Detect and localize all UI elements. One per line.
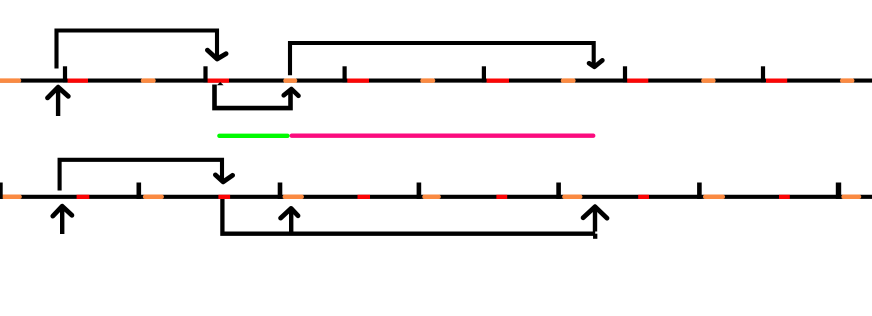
top orange segment 2 xyxy=(143,78,154,83)
top tick 5 xyxy=(623,66,627,82)
bottom bracket B with up arrow (top row) xyxy=(215,85,299,109)
top orange segment 3 xyxy=(286,78,296,83)
top orange segment 7 xyxy=(842,78,852,83)
bottom orange segment 3 xyxy=(285,195,302,200)
up arrow D1 below bottom line xyxy=(53,206,72,234)
bottom tick 2 xyxy=(278,183,283,199)
up arrow E2 at right end of bracket E xyxy=(583,207,607,232)
up arrow A1 below top line xyxy=(48,87,69,116)
top red segment 6 xyxy=(766,79,787,83)
top sequence line xyxy=(0,79,872,83)
bottom orange segment 1 xyxy=(4,195,20,200)
top red segment 1 xyxy=(68,79,88,83)
bottom red segment 4 xyxy=(496,195,507,199)
small artifact mark below top line xyxy=(217,82,224,85)
bottom tick 3 xyxy=(417,183,422,199)
top tick 3 xyxy=(343,66,347,82)
top bracket C with down arrow xyxy=(290,43,602,75)
bottom bracket D with down arrow xyxy=(60,160,233,191)
bottom orange segment 7 xyxy=(844,195,859,200)
top orange segment 6 xyxy=(703,78,713,83)
bottom tick 4 xyxy=(556,183,561,199)
top orange segment 5 xyxy=(563,78,573,83)
top red segment 3 xyxy=(347,79,369,83)
bottom bracket E xyxy=(222,199,595,239)
top tick 2 xyxy=(203,66,207,82)
bottom orange segment 5 xyxy=(564,195,580,200)
top red segment 2 xyxy=(208,79,230,83)
top tick 6 xyxy=(761,66,765,82)
top red segment 4 xyxy=(487,79,509,83)
bottom orange segment 2 xyxy=(145,195,162,200)
top red segment 5 xyxy=(627,79,648,83)
bottom tick 6 xyxy=(836,183,841,199)
up arrow E1 on bracket E xyxy=(281,208,298,231)
top bracket A with down arrow xyxy=(57,31,227,69)
bottom red segment 3 xyxy=(358,195,371,199)
bottom red segment 1 xyxy=(77,195,90,199)
bottom orange segment 4 xyxy=(425,195,439,200)
top orange segment 4 xyxy=(423,78,434,83)
bottom red segment 2 xyxy=(218,195,230,199)
top orange segment 1 xyxy=(0,78,19,83)
bottom tick 1 xyxy=(137,183,142,199)
bottom orange segment 6 xyxy=(705,195,723,200)
green sequence fragment xyxy=(219,134,287,138)
magenta sequence fragment xyxy=(292,133,593,137)
bottom red segment 6 xyxy=(779,195,790,199)
bottom tick 0 (left edge) xyxy=(0,183,3,199)
top tick 1 xyxy=(63,66,67,82)
top tick 4 xyxy=(482,66,486,82)
bottom red segment 5 xyxy=(638,195,649,199)
bottom sequence line xyxy=(0,195,872,199)
bottom tick 5 xyxy=(697,183,702,199)
